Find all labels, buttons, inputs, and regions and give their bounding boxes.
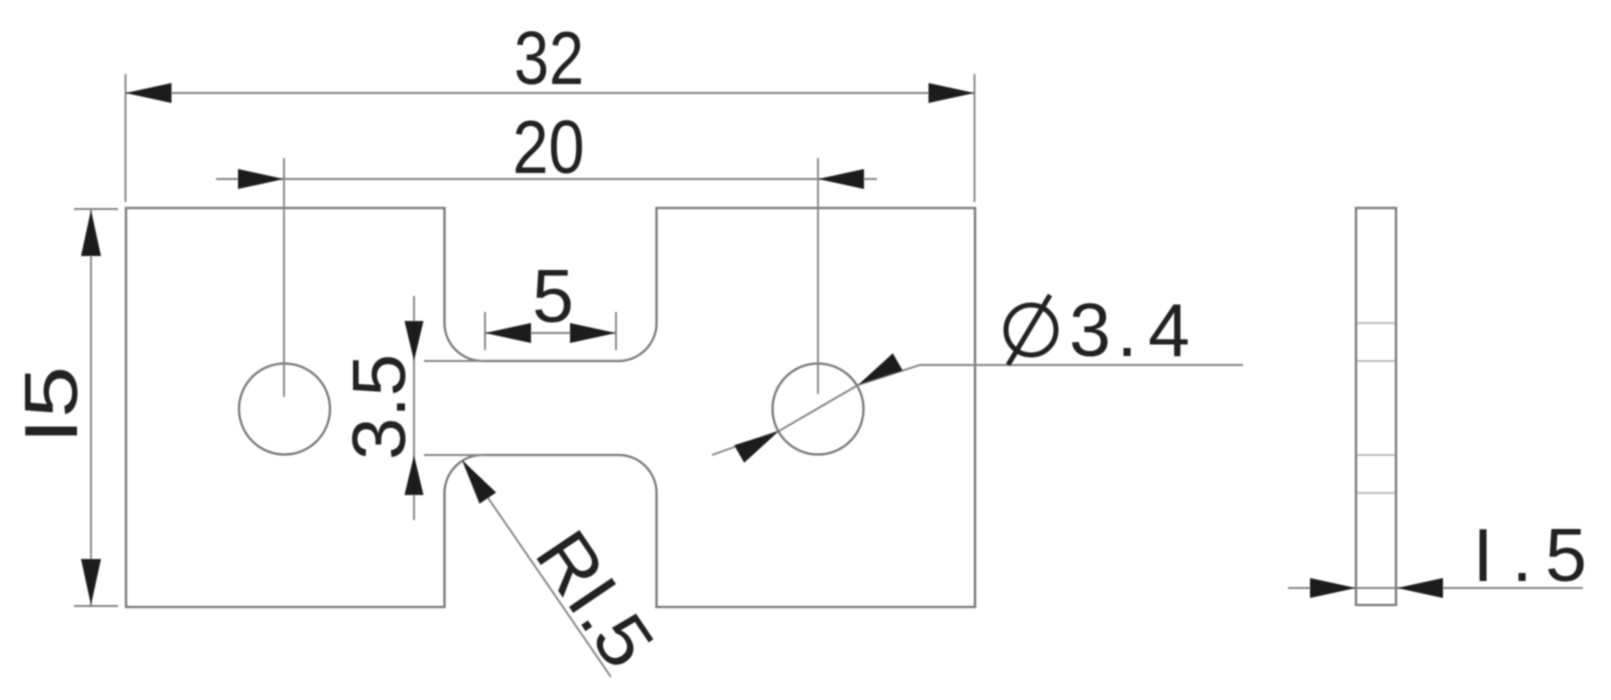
svg-text:I5: I5 xyxy=(9,366,93,444)
svg-text:.: . xyxy=(1117,288,1138,372)
svg-text:5: 5 xyxy=(532,254,574,338)
svg-text:20: 20 xyxy=(513,105,585,189)
svg-text:3.5: 3.5 xyxy=(337,354,421,460)
svg-text:.: . xyxy=(1512,513,1533,597)
svg-text:I: I xyxy=(1473,513,1494,597)
svg-text:4: 4 xyxy=(1148,288,1190,372)
svg-text:3: 3 xyxy=(1069,288,1111,372)
svg-text:5: 5 xyxy=(1545,513,1587,597)
svg-text:32: 32 xyxy=(514,16,584,100)
